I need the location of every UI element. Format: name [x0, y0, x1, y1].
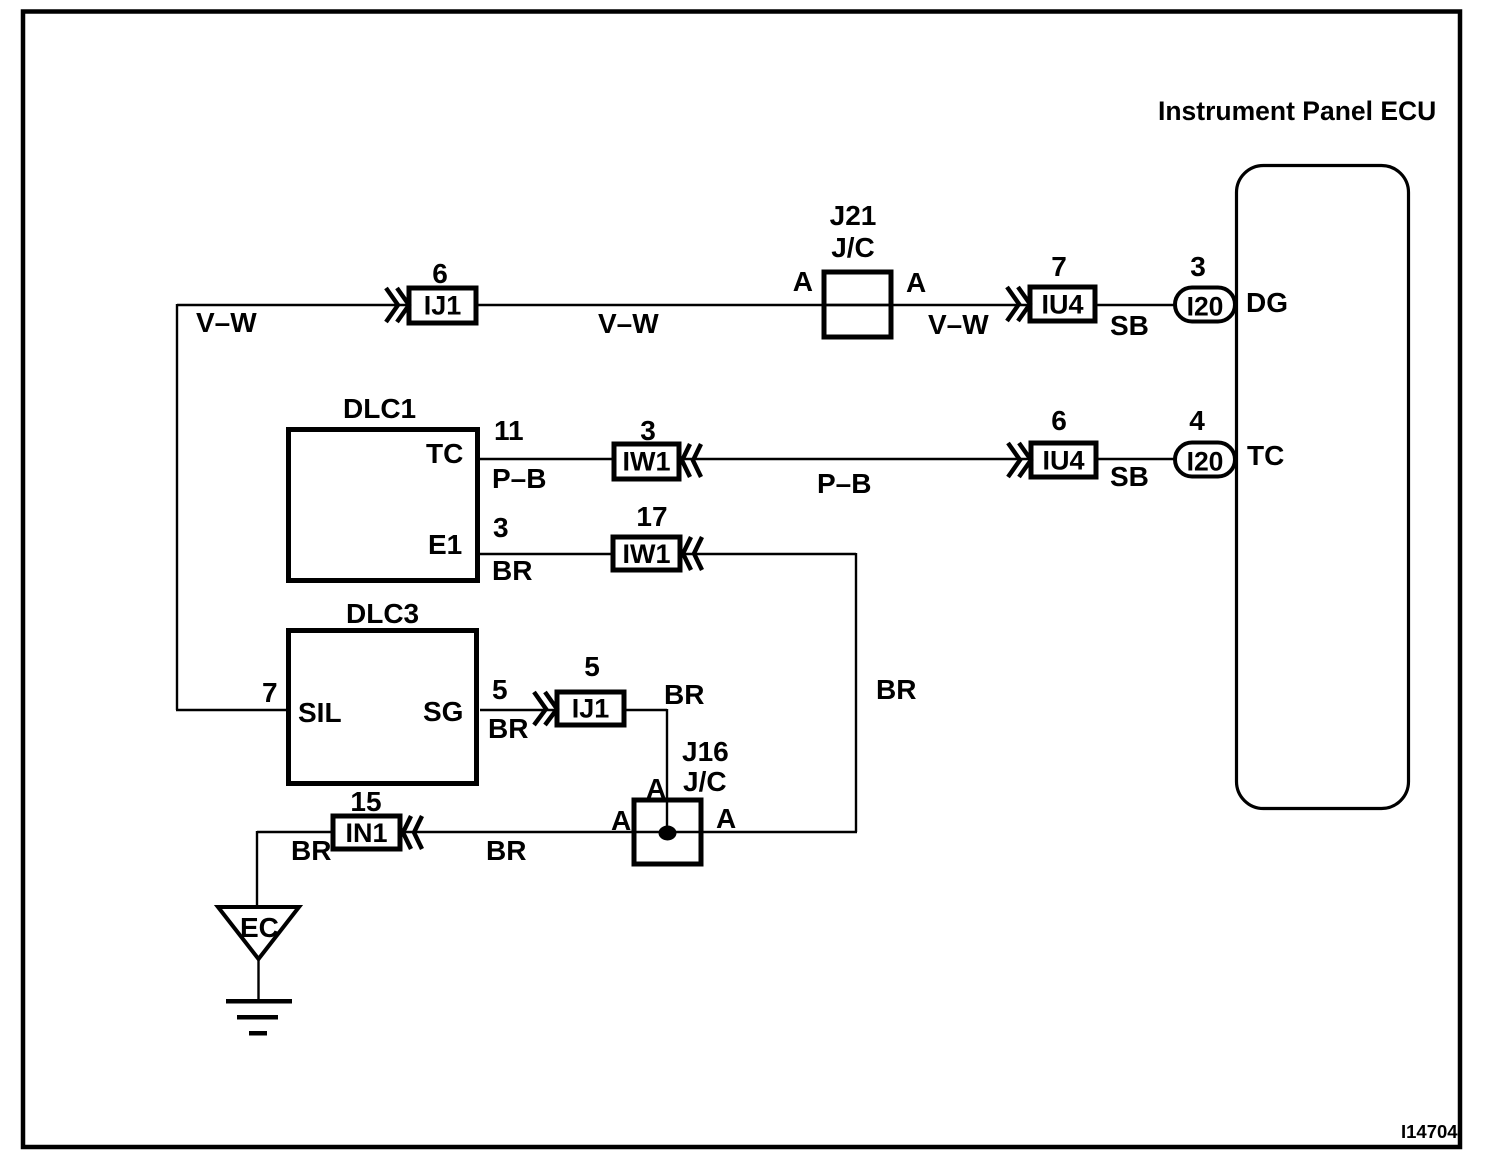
svg-text:V–W: V–W	[598, 308, 659, 339]
svg-text:17: 17	[636, 501, 667, 532]
wire BR right vertical	[855, 553, 857, 832]
svg-text:TC: TC	[426, 438, 463, 469]
svg-text:A: A	[906, 267, 926, 298]
wire row5 J16 to vertical	[701, 831, 857, 833]
DLC1 box	[289, 393, 478, 581]
connector IU4 #6	[1008, 405, 1096, 477]
svg-text:P–B: P–B	[492, 463, 546, 494]
svg-text:BR: BR	[664, 679, 704, 710]
svg-text:5: 5	[492, 674, 508, 705]
wire EC vertical	[256, 831, 258, 909]
wire V-W row1 left segment	[177, 304, 410, 306]
svg-text:I20: I20	[1187, 447, 1224, 477]
svg-text:6: 6	[1051, 405, 1067, 436]
ground bars	[226, 999, 292, 1036]
svg-text:IW1: IW1	[622, 447, 670, 477]
svg-text:I14704: I14704	[1401, 1121, 1458, 1142]
wire SB row1 right segment	[1095, 304, 1177, 306]
wire V-W row1 mid segment	[476, 304, 1030, 306]
svg-text:J21: J21	[830, 200, 877, 231]
svg-text:P–B: P–B	[817, 468, 871, 499]
svg-text:SB: SB	[1110, 461, 1149, 492]
svg-text:DG: DG	[1246, 287, 1288, 318]
pin I20 DG	[1175, 251, 1288, 322]
svg-text:J/C: J/C	[831, 232, 875, 263]
svg-text:A: A	[646, 773, 666, 804]
svg-text:3: 3	[640, 415, 656, 446]
svg-text:7: 7	[1051, 251, 1067, 282]
svg-text:SG: SG	[423, 696, 463, 727]
svg-text:IW1: IW1	[622, 539, 670, 569]
wire P-B row2 left segment	[480, 458, 616, 460]
ground stem	[257, 957, 259, 1001]
wire row5 IN1 left	[257, 831, 334, 833]
wire through J21	[824, 304, 891, 306]
svg-text:IU4: IU4	[1042, 446, 1084, 476]
svg-text:SB: SB	[1110, 310, 1149, 341]
svg-text:IJ1: IJ1	[424, 291, 462, 321]
wire BR row3 left segment	[480, 553, 615, 555]
svg-text:3: 3	[1190, 251, 1206, 282]
svg-text:A: A	[716, 803, 736, 834]
svg-text:BR: BR	[492, 555, 532, 586]
connector IU4 #7	[1007, 251, 1095, 321]
connector IJ1 #6	[386, 258, 476, 323]
svg-text:I20: I20	[1187, 292, 1224, 322]
svg-text:DLC3: DLC3	[346, 598, 419, 629]
svg-text:BR: BR	[486, 835, 526, 866]
pin I20 TC	[1175, 405, 1284, 477]
svg-text:SIL: SIL	[298, 697, 342, 728]
svg-text:IU4: IU4	[1041, 290, 1083, 320]
connector IW1 #17	[613, 501, 702, 570]
svg-text:V–W: V–W	[196, 307, 257, 338]
wire SIL horizontal	[176, 709, 287, 711]
svg-text:TC: TC	[1247, 440, 1284, 471]
connector IN1 #15	[333, 786, 422, 849]
ground EC triangle	[218, 907, 299, 959]
junction J21	[793, 200, 926, 337]
junction J16	[611, 736, 736, 864]
wire BR row3 right segment	[680, 553, 856, 555]
svg-text:E1: E1	[428, 529, 462, 560]
svg-text:3: 3	[493, 512, 509, 543]
wire P-B row2 mid segment	[679, 458, 1032, 460]
wire row5 IN1 to J16	[400, 831, 634, 833]
svg-text:BR: BR	[488, 713, 528, 744]
svg-text:IJ1: IJ1	[572, 694, 610, 724]
svg-text:BR: BR	[291, 835, 331, 866]
DLC3 box	[289, 598, 477, 784]
svg-text:V–W: V–W	[928, 309, 989, 340]
svg-text:J/C: J/C	[683, 766, 727, 797]
wire row4 from IJ1 to corner	[624, 709, 667, 711]
svg-text:15: 15	[350, 786, 381, 817]
wire through J16	[634, 831, 701, 833]
svg-text:A: A	[793, 266, 813, 297]
wire left vertical V-W	[176, 304, 178, 710]
svg-text:EC: EC	[240, 912, 279, 943]
svg-text:5: 5	[584, 651, 600, 682]
svg-text:6: 6	[432, 258, 448, 289]
svg-text:7: 7	[262, 677, 278, 708]
svg-text:IN1: IN1	[345, 818, 387, 848]
svg-text:J16: J16	[682, 736, 729, 767]
wire vertical into J16	[666, 709, 668, 833]
svg-text:BR: BR	[876, 674, 916, 705]
Instrument Panel ECU box	[1237, 166, 1409, 809]
svg-text:A: A	[611, 805, 631, 836]
connector IJ1 #5	[534, 651, 624, 725]
connector IW1 #3	[614, 415, 701, 479]
svg-text:Instrument Panel ECU: Instrument Panel ECU	[1158, 96, 1436, 126]
svg-text:11: 11	[494, 415, 524, 446]
wire SG row4 left stub	[480, 709, 558, 711]
svg-text:DLC1: DLC1	[343, 393, 416, 424]
svg-text:4: 4	[1189, 405, 1205, 436]
wire SB row2 right segment	[1096, 458, 1177, 460]
